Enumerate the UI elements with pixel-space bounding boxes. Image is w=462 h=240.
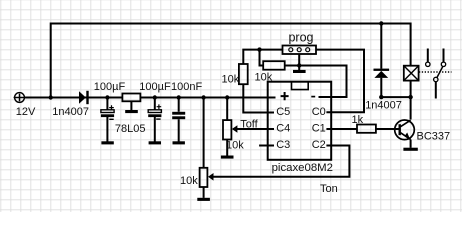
svg-text:C4: C4 <box>276 123 290 135</box>
svg-text:1n4007: 1n4007 <box>52 106 89 118</box>
svg-text:picaxe08M2: picaxe08M2 <box>272 162 333 174</box>
svg-text:100µF: 100µF <box>139 81 171 93</box>
svg-text:100µF: 100µF <box>94 81 126 93</box>
svg-text:10k: 10k <box>226 139 244 151</box>
svg-text:12V: 12V <box>16 106 36 118</box>
svg-text:100nF: 100nF <box>171 81 202 93</box>
svg-text:C0: C0 <box>312 106 326 118</box>
svg-text:Ton: Ton <box>320 183 338 195</box>
svg-text:C3: C3 <box>276 139 290 151</box>
svg-text:1n4007: 1n4007 <box>365 100 402 112</box>
svg-text:10k: 10k <box>222 74 240 86</box>
svg-text:1k: 1k <box>352 114 364 126</box>
svg-text:C1: C1 <box>312 123 326 135</box>
svg-text:C2: C2 <box>312 139 326 151</box>
svg-text:10k: 10k <box>180 175 198 187</box>
svg-text:Toff: Toff <box>240 118 258 130</box>
svg-text:prog: prog <box>288 30 313 44</box>
svg-text:C5: C5 <box>276 106 290 118</box>
svg-text:BC337: BC337 <box>417 131 451 143</box>
svg-text:10k: 10k <box>255 72 273 84</box>
svg-text:78L05: 78L05 <box>115 123 146 135</box>
